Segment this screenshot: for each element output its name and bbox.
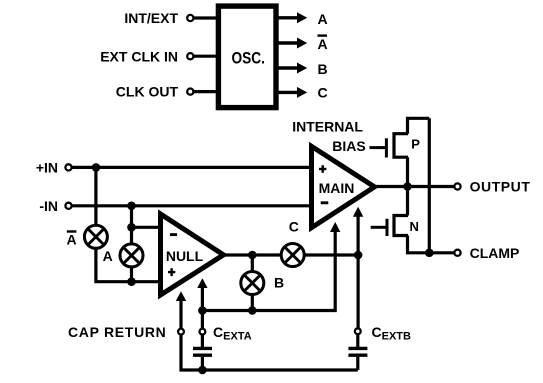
- capacitor CEXTB: [348, 348, 367, 370]
- svg-text:C: C: [318, 85, 328, 101]
- arrow output B of OSC: [276, 66, 298, 69]
- junction B bottom / mid rail: [248, 306, 257, 315]
- terminal CLAMP: [454, 250, 460, 256]
- arrow into MAIN bottom (left): [330, 222, 340, 232]
- arrow CAP RETURN up into NULL: [179, 301, 182, 329]
- svg-text:EXT CLK IN: EXT CLK IN: [100, 48, 178, 64]
- junction CEXTA bottom / ground rail: [198, 366, 207, 375]
- wire MAIN output: [373, 185, 455, 188]
- wire A-bar branch: +IN down through switch to NULL + line: [96, 167, 161, 281]
- block OSC oscillator: [218, 6, 276, 108]
- wire +IN to MAIN + input: [72, 166, 312, 169]
- arrow output C of OSC: [276, 91, 298, 94]
- transistor P (PMOS) gate lead: [370, 146, 386, 149]
- svg-text:NULL: NULL: [166, 248, 204, 264]
- terminal +IN: [65, 164, 71, 170]
- junction CEXTB top: [354, 251, 363, 260]
- transistor N (NMOS) gate lead: [371, 226, 386, 229]
- arrow output A-bar of OSC: [276, 41, 298, 44]
- wire to NULL - input: [132, 226, 161, 229]
- wire mid rail CEXTA to MAIN arrow: [202, 232, 335, 311]
- wire P source up to top rail: [408, 118, 430, 133]
- svg-text:INT/EXT: INT/EXT: [124, 10, 178, 26]
- terminal -IN: [65, 203, 71, 209]
- wire CEXTB terminal to capacitor: [356, 334, 359, 347]
- svg-text:BIAS: BIAS: [332, 138, 365, 154]
- svg-text:P: P: [411, 137, 420, 152]
- svg-text:B: B: [318, 61, 328, 77]
- wire N source down to CLAMP node: [408, 236, 430, 253]
- svg-text:A: A: [103, 248, 113, 264]
- junction output node: [403, 182, 412, 191]
- svg-text:+IN: +IN: [36, 160, 58, 176]
- transistor P gate bar: [385, 138, 388, 157]
- terminal EXT CLK IN: [187, 53, 193, 59]
- arrow into MAIN bottom (right): [357, 216, 360, 255]
- wire EXT CLK IN to OSC: [193, 55, 219, 58]
- svg-text:MAIN: MAIN: [319, 180, 355, 196]
- wire -IN to MAIN - input: [72, 204, 312, 207]
- transistor P channel bracket: [394, 134, 408, 158]
- op-amp MAIN: [312, 146, 375, 227]
- wire CEXTA terminal to capacitor: [201, 335, 204, 347]
- switch S-A: [120, 244, 143, 267]
- terminal CEXTB: [355, 328, 361, 334]
- junction CLAMP node: [425, 249, 434, 258]
- junction A branch / NULL + wire: [127, 277, 136, 286]
- wire NULL output to C switch to CEXTB node: [222, 253, 358, 256]
- svg-text:A: A: [67, 231, 77, 247]
- wire INT/EXT to OSC: [193, 16, 219, 19]
- svg-text:N: N: [410, 219, 419, 234]
- svg-text:A: A: [318, 36, 328, 52]
- switch S-C: [281, 244, 304, 267]
- svg-text:A: A: [318, 11, 328, 27]
- terminal INT/EXT: [187, 15, 193, 21]
- svg-text:INTERNAL: INTERNAL: [292, 119, 363, 135]
- junction A branch / NULL - wire: [127, 223, 136, 232]
- junction -IN / A switch branch: [127, 202, 136, 211]
- terminal CLK OUT: [187, 89, 193, 95]
- transistor N channel bracket: [394, 216, 408, 236]
- junction CEXTA top / mid rail: [198, 306, 207, 315]
- wire A branch: -IN down through switch to NULL + line: [130, 206, 133, 282]
- svg-text:CAP RETURN: CAP RETURN: [68, 324, 167, 340]
- wire CAP RETURN down to ground rail: [181, 335, 358, 370]
- wire CLAMP node to terminal: [429, 251, 454, 254]
- transistor N gate bar: [386, 219, 389, 236]
- arrow into NULL bottom: [201, 288, 204, 311]
- svg-text:-IN: -IN: [39, 198, 58, 214]
- svg-text:OSC.: OSC.: [231, 49, 265, 68]
- terminal CAP RETURN: [178, 329, 184, 335]
- wire P drain down to output node: [406, 157, 409, 215]
- svg-text:B: B: [274, 274, 284, 290]
- wire right rail (top to CLAMP node): [428, 118, 431, 253]
- svg-text:CLAMP: CLAMP: [470, 245, 520, 261]
- junction +IN / A-bar switch branch: [92, 163, 101, 172]
- junction NULL output / B switch branch: [248, 251, 257, 260]
- svg-text:CLK OUT: CLK OUT: [116, 84, 179, 100]
- op-amp NULL: [161, 214, 224, 295]
- wire CEXTB branch vertical: [357, 255, 360, 328]
- wire CLK OUT to OSC: [193, 90, 219, 93]
- capacitor CEXTA: [193, 348, 212, 370]
- svg-text:OUTPUT: OUTPUT: [470, 179, 531, 195]
- terminal CEXTA: [200, 329, 206, 335]
- wire CEXTA branch vertical: [201, 311, 204, 329]
- svg-text:C: C: [289, 219, 299, 235]
- wire B branch down: [251, 255, 254, 311]
- terminal OUTPUT: [454, 183, 460, 189]
- switch S-B: [241, 272, 264, 295]
- arrow output A of OSC: [276, 16, 298, 19]
- switch S-Abar: [84, 225, 107, 248]
